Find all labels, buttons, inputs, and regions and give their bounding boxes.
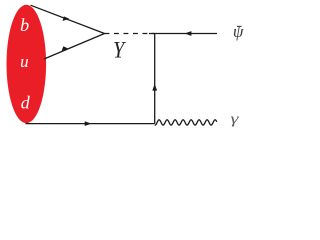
svg-text:Y: Y — [113, 37, 126, 62]
photon wavy line — [155, 120, 217, 125]
wire: b quark line — [31, 5, 105, 33]
arrow on u line — [62, 46, 69, 51]
svg-text:b: b — [20, 15, 29, 35]
svg-text:ψ: ψ — [233, 22, 244, 41]
svg-text:γ: γ — [231, 110, 240, 127]
svg-text:d: d — [21, 93, 31, 113]
wire: psi-bar line (top right) — [149, 33, 217, 35]
dashed Y propagator — [105, 33, 156, 35]
svg-text:u: u — [20, 52, 29, 71]
blob (b u d hadron) — [7, 5, 47, 123]
arrow left on psi-bar line — [185, 31, 192, 36]
arrow up on vertical line — [152, 84, 157, 91]
wire: vertical fermion line — [154, 34, 156, 124]
wire: u quark line — [44, 34, 105, 60]
wire: d quark line (bottom) — [26, 123, 155, 125]
arrow on b line — [63, 16, 70, 21]
arrow on d line — [85, 121, 92, 126]
